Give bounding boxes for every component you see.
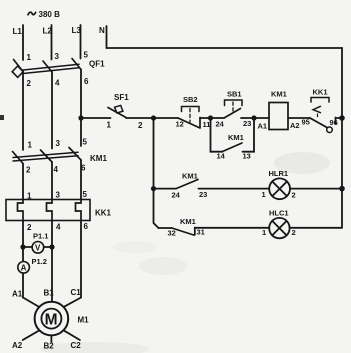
svg-text:SB1: SB1	[227, 90, 242, 99]
svg-text:1: 1	[262, 228, 266, 237]
wire phase A KK1 down	[22, 221, 24, 262]
svg-text:V: V	[35, 244, 41, 253]
svg-text:23: 23	[199, 190, 207, 199]
svg-text:380 В: 380 В	[39, 10, 61, 19]
svg-text:1: 1	[107, 121, 112, 130]
contact KM1 24-23	[172, 172, 208, 200]
svg-text:M1: M1	[78, 316, 90, 325]
svg-text:3: 3	[56, 191, 61, 200]
button SB2	[176, 95, 211, 129]
svg-text:KM1: KM1	[182, 172, 198, 181]
svg-text:23: 23	[243, 119, 251, 128]
node control left rail top	[151, 115, 156, 120]
svg-text:A2: A2	[290, 121, 300, 130]
svg-text:A1: A1	[12, 290, 23, 299]
node left rail row2	[151, 186, 156, 191]
svg-text:4: 4	[54, 165, 59, 174]
svg-text:KM1: KM1	[180, 217, 196, 226]
wire SB1 to coil	[241, 117, 269, 119]
button SB1	[216, 90, 252, 129]
svg-text:L2: L2	[43, 27, 53, 36]
node L3	[72, 25, 82, 59]
voltmeter P1.1	[32, 232, 48, 254]
node right rail row1	[339, 115, 345, 121]
svg-text:N: N	[99, 26, 105, 35]
svg-text:3: 3	[55, 52, 60, 61]
svg-text:32: 32	[168, 229, 176, 238]
svg-text:SB2: SB2	[183, 95, 198, 104]
ammeter P1.2	[18, 257, 47, 273]
wire phase A KM1 to KK1	[22, 164, 24, 200]
svg-text:M: M	[45, 311, 58, 328]
lamp HLR1	[262, 169, 296, 200]
svg-text:HLC1: HLC1	[269, 209, 289, 218]
svg-text:L1: L1	[13, 27, 23, 36]
wire row2 left	[154, 188, 177, 190]
node SB1 left	[208, 115, 213, 120]
svg-text:2: 2	[27, 223, 32, 232]
svg-text:QF1: QF1	[89, 60, 105, 69]
wire to SF1	[81, 117, 111, 119]
svg-text:C1: C1	[71, 288, 82, 297]
svg-text:6: 6	[84, 77, 89, 86]
svg-text:A: A	[21, 264, 27, 273]
svg-text:1: 1	[28, 141, 33, 150]
wire phase C KM1 to KK1	[80, 160, 82, 200]
wire SF1 to node	[126, 117, 178, 119]
contact KM1 aux 13-14	[211, 118, 255, 161]
breaker SF1	[107, 93, 144, 130]
contact KK1 95-96	[302, 88, 343, 133]
svg-text:KM1: KM1	[90, 154, 107, 163]
lamp HLC1	[262, 209, 296, 239]
svg-text:1: 1	[262, 190, 266, 199]
svg-text:5: 5	[83, 138, 88, 147]
svg-text:B2: B2	[44, 342, 55, 351]
svg-text:96: 96	[330, 118, 338, 127]
svg-text:HLR1: HLR1	[269, 169, 289, 178]
coil KM1	[258, 90, 300, 131]
wire phase B KM1 to KK1	[51, 162, 53, 200]
wire left rail	[154, 118, 159, 228]
svg-text:31: 31	[197, 228, 205, 237]
wire right rail	[341, 48, 343, 228]
svg-text:2: 2	[27, 79, 32, 88]
svg-text:KM1: KM1	[228, 133, 244, 142]
wire row2 right	[290, 188, 342, 190]
svg-text:KM1: KM1	[271, 90, 287, 99]
svg-text:B1: B1	[44, 289, 55, 298]
svg-text:P1.1: P1.1	[33, 232, 48, 241]
svg-text:C2: C2	[71, 341, 82, 350]
wire row3 middle	[195, 227, 269, 229]
wire phase C KK1 down	[80, 221, 82, 298]
svg-text:A1: A1	[258, 122, 268, 131]
wire phase A QF1 to KM1	[22, 72, 24, 151]
svg-text:24: 24	[216, 120, 225, 129]
svg-text:11: 11	[203, 120, 211, 129]
wire phase B QF1 to KM1	[51, 72, 53, 149]
wire voltmeter tap	[23, 246, 52, 248]
svg-text:KK1: KK1	[95, 209, 112, 218]
contactor KM1 main contacts	[13, 138, 108, 175]
svg-text:5: 5	[84, 51, 89, 60]
contact KM1 32-31	[168, 217, 205, 238]
svg-text:14: 14	[217, 152, 226, 161]
wire ammeter down	[22, 273, 24, 297]
wire coil to KK1 contact	[288, 117, 310, 119]
svg-text:2: 2	[292, 228, 296, 237]
svg-text:A2: A2	[12, 341, 23, 350]
node voltmeter left	[20, 244, 25, 249]
svg-text:4: 4	[56, 223, 61, 232]
wire row2 middle	[199, 188, 270, 190]
svg-text:24: 24	[172, 191, 181, 200]
node N	[99, 26, 107, 48]
wire phase C QF1 to KM1	[80, 70, 82, 147]
node SB1 right	[251, 115, 256, 120]
wire row3 left	[159, 227, 172, 229]
svg-text:95: 95	[302, 118, 310, 127]
node right rail row2	[339, 186, 345, 192]
motor M1	[12, 288, 89, 351]
svg-text:5: 5	[83, 190, 88, 199]
svg-text:2: 2	[138, 121, 143, 130]
svg-text:2: 2	[26, 166, 31, 175]
node L2	[43, 25, 53, 60]
node L1	[13, 25, 24, 60]
svg-text:3: 3	[56, 139, 61, 148]
circuit breaker QF1	[12, 51, 105, 89]
wire N bus	[107, 47, 343, 49]
svg-text:KK1: KK1	[313, 88, 328, 97]
wire row3 right	[290, 227, 342, 229]
node control tap on phase C	[78, 115, 83, 120]
svg-text:P1.2: P1.2	[32, 257, 47, 266]
svg-text:SF1: SF1	[114, 93, 129, 102]
wire SB2 to SB1	[200, 117, 224, 119]
svg-text:1: 1	[27, 53, 32, 62]
wire phase B KK1 down	[51, 221, 53, 302]
svg-text:L3: L3	[72, 26, 82, 35]
node voltmeter right	[49, 244, 54, 249]
svg-text:12: 12	[176, 120, 184, 129]
thermal relay KK1	[6, 190, 112, 232]
svg-text:2: 2	[292, 191, 296, 200]
svg-text:4: 4	[55, 79, 60, 88]
svg-text:13: 13	[243, 152, 251, 161]
svg-text:6: 6	[84, 222, 89, 231]
label 380V	[28, 10, 60, 19]
